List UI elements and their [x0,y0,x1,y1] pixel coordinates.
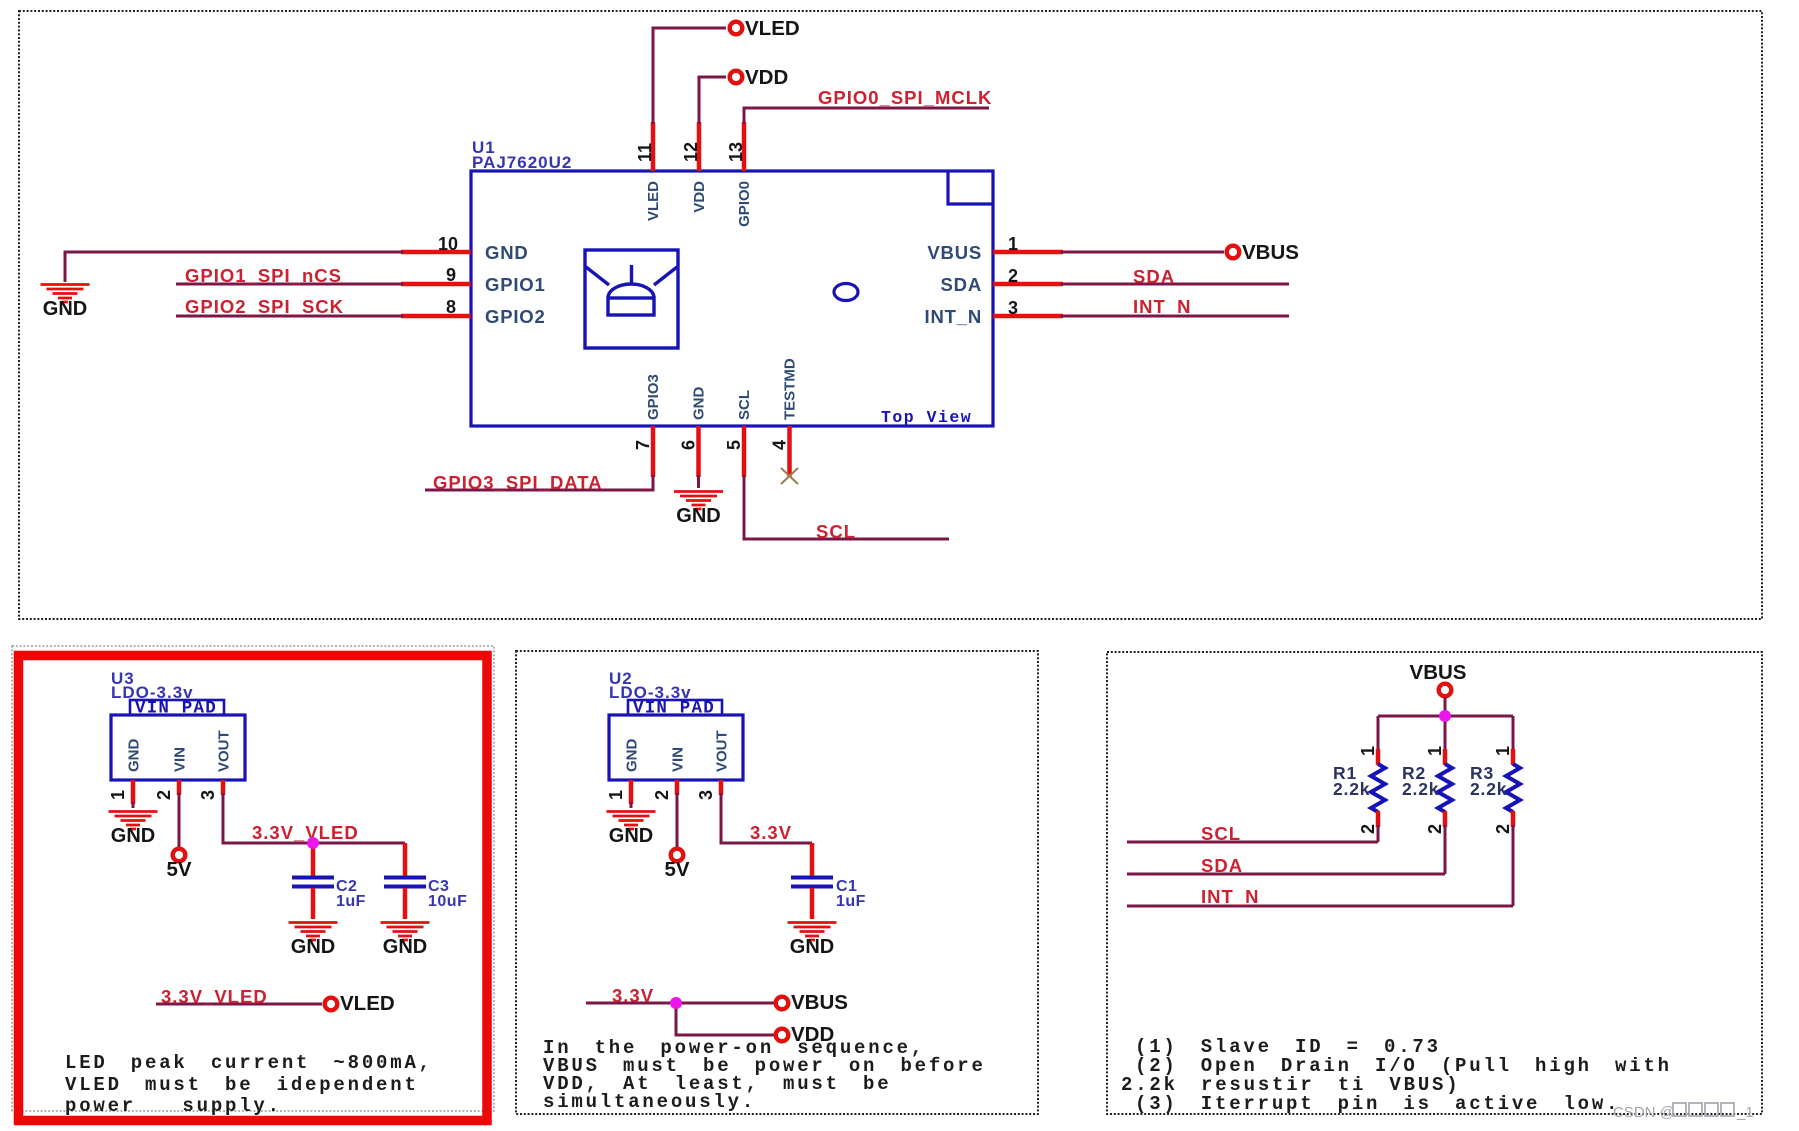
U3 pin 1 to ground [131,780,136,804]
U1 corner notch [948,171,993,204]
svg-text:1: 1 [1493,746,1513,756]
svg-text:3.3V_VLED: 3.3V_VLED [252,822,359,843]
svg-text:PAJ7620U2: PAJ7620U2 [472,153,572,172]
wire to ground [65,252,403,282]
wire GPIO3_SPI_DATA [425,475,653,490]
svg-text:GND: GND [691,387,708,421]
svg-text:2.2k: 2.2k [1402,779,1439,799]
svg-text:13: 13 [726,142,746,162]
terminal VBUS [1227,246,1240,259]
svg-text:GPIO1: GPIO1 [485,274,546,295]
wire 3.3V_VLED to VLED port [156,1003,322,1006]
wire VBUS net [1061,251,1224,254]
svg-text:VIN: VIN [172,747,189,772]
svg-text:VBUS: VBUS [1410,661,1467,684]
frame: power-on sequence box [516,651,1038,1114]
pin 7 GPIO3 [651,426,656,477]
svg-text:1: 1 [108,790,128,800]
svg-text:GPIO1_SPI_nCS: GPIO1_SPI_nCS [185,265,342,286]
ground symbol (C3) [381,923,430,959]
wire resistor bus [1378,715,1513,718]
svg-text:2: 2 [1008,266,1018,286]
terminal VLED [325,998,338,1011]
svg-text:SCL: SCL [816,521,856,542]
pin 2 SDA [993,282,1063,287]
U2 VIN PAD tab [628,700,722,715]
svg-text:2.2k: 2.2k [1333,779,1370,799]
svg-text:VDD: VDD [691,181,708,213]
svg-text:GND: GND [485,242,529,263]
svg-text:1uF: 1uF [336,893,366,910]
svg-text:3: 3 [1008,298,1018,318]
svg-text:11: 11 [635,143,655,162]
svg-text:9: 9 [446,265,456,285]
svg-text:SDA: SDA [941,274,982,295]
svg-text:Top View: Top View [881,408,972,427]
svg-text:GND: GND [126,739,143,773]
terminal VDD [730,71,743,84]
svg-text:GPIO2_SPI_SCK: GPIO2_SPI_SCK [185,296,344,317]
svg-text:TESTMD: TESTMD [782,358,799,420]
svg-text:power supply.: power supply. [65,1095,282,1117]
wire GPIO0_SPI_MCLK [744,108,989,124]
U2 body [609,715,743,780]
wire GPIO2_SPI_SCK [176,315,403,318]
wire to VDD port [676,1003,775,1035]
junction node VBUS [1439,710,1451,722]
wire 3.3V to VBUS/VDD ports [586,1002,775,1005]
svg-text:GPIO2: GPIO2 [485,306,546,327]
wire VBUS to bus [1444,697,1447,716]
svg-text:_1: _1 [1736,1104,1754,1121]
svg-text:5V: 5V [166,858,191,881]
svg-text:(3) Iterrupt pin is active low: (3) Iterrupt pin is active low. [1135,1093,1620,1115]
junction node 3.3V_VLED [307,837,319,849]
svg-text:VLED: VLED [645,181,662,221]
U3 VIN PAD tab [130,700,224,715]
pin 6 GND [696,426,701,477]
svg-text:4: 4 [770,440,790,450]
svg-text:2: 2 [1425,824,1445,834]
pin 10 GND [401,250,471,255]
resistor R3 2.2k [1512,716,1515,750]
frame: LED supply note box (dotted) [12,646,494,1111]
svg-text:SDA: SDA [1201,855,1243,876]
svg-text:SCL: SCL [1201,823,1241,844]
svg-text:SCL: SCL [736,390,753,420]
terminal 5V [173,849,186,862]
svg-text:GPIO3: GPIO3 [645,374,662,420]
U2 pin 2 to 5V [675,780,680,795]
ground symbol (left) [41,285,90,321]
op-amp U1 PAJ7620U2 body [471,171,993,426]
svg-text:simultaneously.: simultaneously. [543,1091,756,1113]
svg-text:1: 1 [1358,746,1378,756]
svg-text:CSDN @: CSDN @ [1613,1104,1675,1121]
wire INT_N net [1061,315,1289,318]
wire VDD net [699,77,726,124]
svg-text:VIN: VIN [670,747,687,772]
svg-text:3.3V: 3.3V [612,985,654,1006]
frame: red highlight box [19,656,488,1121]
U2 pin 3 VOUT stub [719,780,724,795]
svg-text:5: 5 [724,440,744,450]
svg-text:10uF: 10uF [428,893,467,910]
svg-text:2: 2 [154,790,174,800]
svg-text:12: 12 [681,142,701,162]
capacitor C2 1uF [311,843,316,876]
junction node 3.3V [670,997,682,1009]
wire GPIO1_SPI_nCS [176,283,403,286]
svg-text:INT_N: INT_N [1133,296,1191,317]
svg-text:VBUS: VBUS [791,991,848,1014]
svg-text:2: 2 [1358,824,1378,834]
wire 3.3V rail [721,793,812,843]
svg-text:GPIO3_SPI_DATA: GPIO3_SPI_DATA [433,472,603,493]
svg-text:GPIO0: GPIO0 [736,181,753,227]
pin 13 GPIO0 [742,122,747,171]
svg-text:2: 2 [652,790,672,800]
capacitor C1 1uF [810,843,815,876]
terminal VBUS [1439,684,1452,697]
svg-text:2.2k: 2.2k [1470,779,1507,799]
svg-text:10: 10 [438,234,458,254]
wire INT_N [1127,825,1513,906]
U3 body [111,715,245,780]
wire SDA [1127,825,1445,874]
svg-text:INT_N: INT_N [925,306,982,327]
svg-text:7: 7 [633,440,653,450]
frame: top schematic sheet [19,11,1762,619]
resistor R1 2.2k [1377,716,1380,750]
ground symbol (pin 6) [674,492,723,528]
U2 pin 1 to ground [629,780,634,804]
svg-text:3: 3 [696,790,716,800]
terminal 5V [671,849,684,862]
svg-text:VLED must be idependent: VLED must be idependent [65,1074,419,1096]
svg-text:3.3V: 3.3V [750,822,792,843]
svg-text:3: 3 [198,790,218,800]
wire SCL net [744,475,949,539]
wire to ground [697,475,700,488]
svg-text:VLED: VLED [745,17,800,40]
pin 8 GPIO2 [401,314,471,319]
svg-text:2: 2 [1493,824,1513,834]
U3 pin 3 VOUT stub [221,780,226,795]
svg-text:LED peak current ~800mA,: LED peak current ~800mA, [65,1052,433,1074]
svg-text:VBUS: VBUS [927,242,982,263]
pin 5 SCL [742,426,747,477]
U1 lens icon [585,250,678,348]
svg-text:VOUT: VOUT [714,730,731,772]
U1 pin-1 marker ellipse [834,284,858,301]
terminal VLED [730,22,743,35]
svg-text:1: 1 [606,790,626,800]
svg-text:6: 6 [679,440,699,450]
terminal VDD [776,1029,789,1042]
svg-text:VDD: VDD [745,66,788,89]
svg-text:VBUS: VBUS [1242,241,1299,264]
pin 1 VBUS [993,250,1063,255]
pin 4 TESTMD no-connect [787,426,792,477]
svg-text:GND: GND [624,739,641,773]
U3 pin 2 to 5V [177,780,182,795]
svg-text:SDA: SDA [1133,266,1175,287]
svg-text:INT_N: INT_N [1201,886,1259,907]
svg-text:GPIO0_SPI_MCLK: GPIO0_SPI_MCLK [818,87,992,108]
frame: pull-up resistors box [1107,652,1762,1114]
terminal VBUS [776,997,789,1010]
svg-text:1: 1 [1008,234,1018,254]
wire 3.3V_VLED rail [223,793,405,843]
resistor R2 2.2k [1444,716,1447,750]
wire SDA net [1061,283,1289,286]
pin 3 INT_N [993,314,1063,319]
svg-text:VOUT: VOUT [216,730,233,772]
svg-text:1uF: 1uF [836,893,866,910]
wire VLED net [653,28,726,124]
svg-text:3.3V_VLED: 3.3V_VLED [161,986,268,1007]
svg-text:8: 8 [446,297,456,317]
svg-text:VLED: VLED [340,992,395,1015]
capacitor C3 10uF [403,843,408,876]
pin 12 VDD [697,122,702,171]
watermark [1613,1103,1754,1121]
svg-text:5V: 5V [664,858,689,881]
pin 11 VLED [651,122,656,171]
svg-text:1: 1 [1425,746,1445,756]
no-connect X [781,468,798,484]
ground symbol (C2) [289,923,338,959]
pin 9 GPIO1 [401,282,471,287]
wire SCL [1127,825,1378,842]
ground symbol (C1) [788,923,837,959]
